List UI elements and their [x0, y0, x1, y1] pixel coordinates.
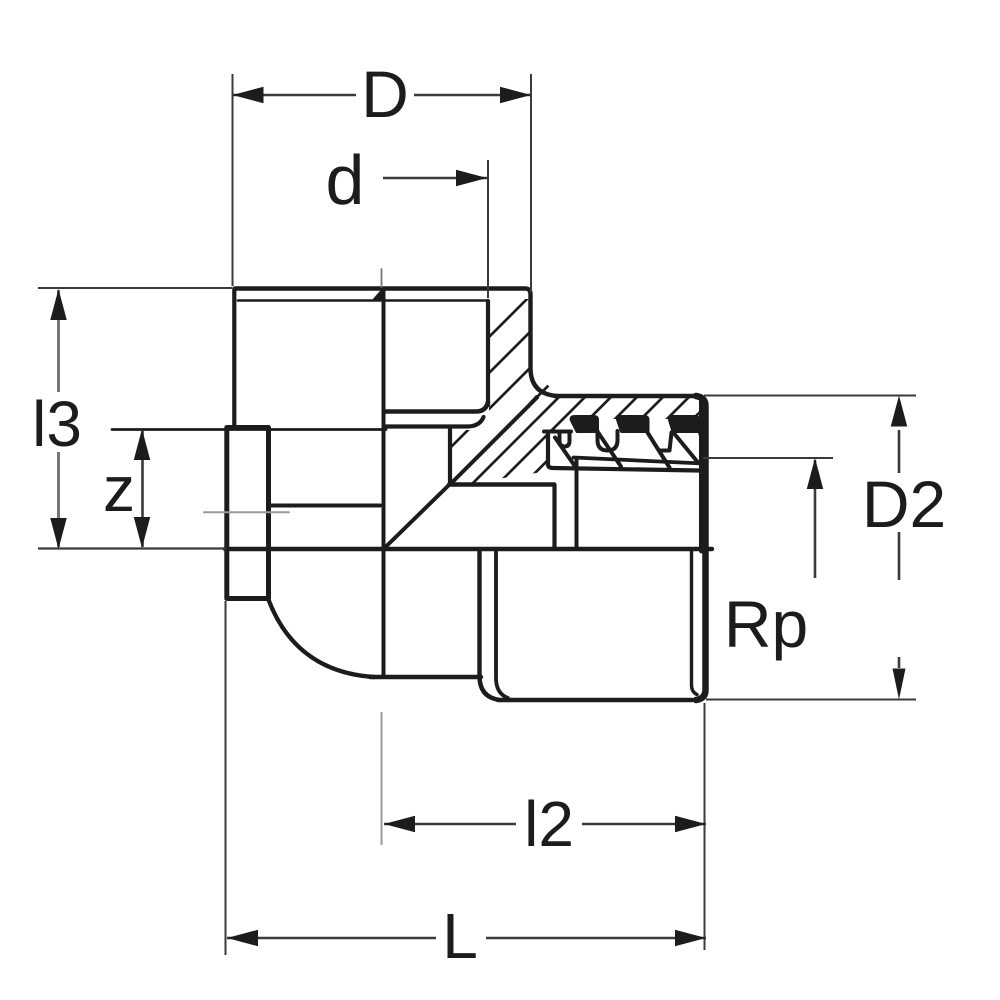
outlet wall upper inner thickness — [699, 399, 704, 551]
dim D2 extension bottom — [706, 699, 916, 701]
dim D extension right — [530, 74, 532, 292]
socket centerline tick — [381, 269, 383, 287]
pipe-stop shoulder lower — [386, 417, 484, 427]
pipe-stop shoulder upper — [386, 402, 488, 412]
dim D2 extension top — [704, 395, 916, 397]
dim z line — [141, 430, 144, 547]
dim d line — [383, 177, 487, 179]
dim d extension — [487, 160, 489, 298]
thread runout pocket outer wall — [548, 432, 699, 471]
dim l3/z extension bottom — [38, 547, 226, 549]
outlet lower-left corner — [480, 676, 501, 700]
svg-text:z: z — [103, 453, 135, 525]
thread runout U groove — [560, 432, 570, 447]
thread tooth 3 — [670, 417, 699, 432]
svg-text:d: d — [326, 141, 365, 219]
elbow outer bend curve — [269, 601, 374, 677]
thread flank 2 — [599, 433, 622, 467]
socket left outer wall — [232, 289, 236, 429]
socket top chamfer line — [238, 299, 488, 302]
thread root line — [574, 458, 704, 464]
dim Rp extension — [703, 457, 833, 459]
socket top edge — [236, 286, 525, 291]
svg-text:D2: D2 — [862, 467, 946, 541]
miter diagonal to axis — [384, 485, 450, 550]
thread flank 4 — [673, 432, 699, 463]
thread valley 2 — [659, 433, 672, 451]
vertical from channel bottom to axis line — [552, 485, 556, 550]
dim D extension left — [232, 74, 234, 286]
outlet end inner edge line — [692, 552, 698, 695]
thread flank 1 — [555, 438, 576, 468]
hatch section: channel-side wedge — [106, 250, 900, 720]
left stub top line — [112, 428, 386, 431]
outlet top edge — [555, 394, 696, 399]
channel bottom horizontal — [449, 482, 554, 486]
dim l2/L extension right — [704, 703, 706, 950]
outlet bottom edge — [498, 698, 692, 703]
svg-text:Rp: Rp — [724, 587, 808, 661]
bore left wall below thread — [575, 458, 579, 548]
svg-text:L: L — [442, 900, 478, 972]
dim D line — [233, 94, 357, 96]
svg-text:l3: l3 — [32, 388, 82, 460]
thread flank 3 — [648, 433, 670, 468]
outlet lower body left edge — [477, 550, 481, 678]
socket bore right wall — [486, 301, 490, 405]
dim L extension left — [225, 601, 227, 955]
dim l3 line — [57, 290, 60, 392]
dim D2 line — [898, 430, 901, 473]
socket right outer wall with curve into outlet top — [526, 289, 557, 397]
channel left wall vertical — [448, 429, 452, 484]
outlet thread-end inner line — [496, 552, 508, 699]
svg-text:D: D — [361, 57, 409, 131]
svg-text:l2: l2 — [524, 788, 574, 860]
thread start cap line — [544, 430, 571, 434]
dim l2 line — [384, 823, 516, 825]
hatch section: elbow wall band — [106, 250, 888, 720]
left stub lower line — [270, 504, 380, 508]
dim Rp line — [814, 460, 817, 578]
collar flange — [227, 428, 269, 599]
axis long line — [225, 547, 712, 551]
section divider line — [382, 289, 386, 676]
dim L line — [227, 937, 436, 939]
dim l3 extension top — [38, 287, 232, 289]
divider wedge mark — [372, 288, 384, 301]
thread tooth 2 — [618, 417, 649, 432]
outlet right outer wall — [696, 396, 706, 700]
thread tooth 1 — [571, 417, 598, 432]
hatch section: socket right wall — [106, 250, 900, 720]
thread valley 1 — [598, 431, 618, 451]
flange centre faint line — [204, 511, 289, 513]
inner corner diagonal edge — [452, 398, 538, 484]
body bottom line — [370, 675, 481, 679]
thread end curve at wall — [700, 432, 704, 446]
dim l2 extension left — [381, 712, 383, 845]
